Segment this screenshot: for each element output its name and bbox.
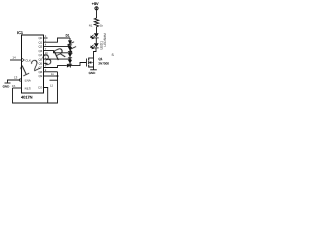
transistor Q1 source wire [89,67,94,70]
wire Q2 [44,45,71,47]
wire gate [70,63,86,66]
svg-text:15: 15 [12,84,16,88]
diode ladder vertical line [69,38,71,66]
wire CLK [10,59,22,61]
transistor Q1 channel dashes [88,58,89,61]
svg-text:GND: GND [89,71,97,75]
svg-text:10: 10 [45,52,48,55]
LED LED2 arrows [92,46,95,49]
junction node Q9 [57,75,59,77]
diode D4 [68,60,72,64]
svg-text:2N7000: 2N7000 [98,62,109,66]
wire +9V down [96,10,98,17]
svg-text:13: 13 [14,76,18,80]
LED LED1 [94,33,99,37]
svg-text:Q1: Q1 [98,57,102,61]
junction node Q3-ladder [69,52,71,54]
wire Q8 [44,71,58,73]
LED LED2 [94,43,99,47]
wire ENA [8,80,20,83]
wire Q1 to ladder top [44,38,71,42]
svg-text:R1: R1 [89,24,93,28]
transistor Q1 gate bar [85,59,88,67]
wire RES loop to bottom [13,72,58,103]
diode D3 [68,53,72,57]
svg-text:12: 12 [50,85,53,88]
wire Q9 [44,75,58,77]
ground GND bar left [5,82,11,84]
IC1 body [22,35,44,93]
wire Q5 [44,58,71,60]
transistor Q1 body line [93,58,95,67]
svg-text:IC1: IC1 [17,30,23,35]
ground GND bar right [90,69,97,71]
junction node Q5-ladder [69,58,71,60]
clock wedge [22,58,25,62]
svg-text:ENA: ENA [25,78,31,82]
wire Q0 stub [44,37,48,39]
diode D2 [68,47,72,51]
LED LED1 arrows [92,36,95,39]
pin ENA bubble [19,79,21,81]
svg-text:RES: RES [25,86,31,90]
wire LED2 to drain [94,48,97,58]
wire RES [13,87,22,89]
wire CO [44,88,48,104]
svg-text:Q9: Q9 [38,74,42,78]
junction node gate [69,65,71,67]
wire Q7 to D5 [44,66,67,68]
wire R1 to LED1 [96,28,98,34]
wire Q4 stub [44,54,48,56]
svg-text:D1: D1 [66,34,70,38]
power +9V circle [95,7,98,10]
svg-text:CLK: CLK [25,58,31,62]
svg-text:4017N: 4017N [21,94,33,99]
svg-text:CO: CO [38,86,43,90]
wire stub y80 [50,79,58,81]
svg-text:14: 14 [12,56,16,60]
transistor Q1 drain wire [89,57,94,59]
junction node Q2-ladder [69,45,71,47]
resistor R1 zigzag [94,17,98,27]
wire Q6 stub [44,62,48,64]
svg-text:GND: GND [3,84,11,88]
watermark 123RF [17,37,84,81]
transistor Q1 body arrow [89,62,93,64]
diode D5 horizontal [67,64,70,68]
background [0,0,120,108]
svg-text:+9V: +9V [92,2,99,6]
diode D1 [68,40,72,44]
wire Q3 [44,51,71,53]
wire LED1 to LED2 [95,38,97,43]
svg-text:LED5MM: LED5MM [103,33,107,47]
